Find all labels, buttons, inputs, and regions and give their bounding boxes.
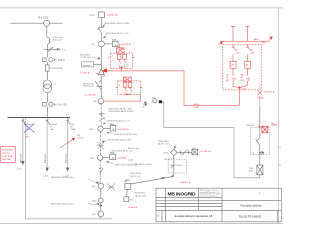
step line to right column <box>162 102 260 178</box>
svg-text:NS16-NS16 4A-2S L-40m: NS16-NS16 4A-2S L-40m <box>114 133 137 136</box>
left end arrow <box>219 41 223 45</box>
svg-text:310-01-TP-2-BS-02: 310-01-TP-2-BS-02 <box>239 215 262 219</box>
junction triangle <box>262 151 265 155</box>
svg-text:IP229A: IP229A <box>175 164 182 167</box>
svg-text:4A-2S L-30: 4A-2S L-30 <box>130 175 141 178</box>
svg-text:RvP-N: RvP-N <box>58 59 65 62</box>
svg-text:P=1500kW: P=1500kW <box>2 149 12 151</box>
svg-text:MB INOGRID: MB INOGRID <box>168 191 197 197</box>
switch on wire <box>181 149 188 155</box>
box N41b <box>124 197 129 202</box>
box2 bottom dot <box>126 94 128 96</box>
wire <box>101 35 103 41</box>
box2 bottom bus <box>125 93 130 96</box>
box NS8a <box>110 126 116 131</box>
box NS2 with X <box>192 149 198 155</box>
red open switch X right <box>258 90 263 95</box>
arrow into junction <box>158 178 164 180</box>
svg-text:naujas: naujas <box>78 137 84 139</box>
wire <box>46 45 48 58</box>
svg-text:L1=420,4 A: L1=420,4 A <box>180 181 191 184</box>
svg-text:L-200: L-200 <box>43 176 49 178</box>
svg-text:(A-2F L-310): (A-2F L-310) <box>158 142 170 145</box>
red leader to branch3 <box>60 138 75 148</box>
svg-text:Z0N-1-2S: Z0N-1-2S <box>53 40 63 42</box>
red branch from N20 <box>104 94 141 101</box>
open switch X <box>97 142 104 149</box>
branch3 wire <box>67 118 69 167</box>
svg-text:www.eso.lt, info@eso.lt: www.eso.lt, info@eso.lt <box>200 194 218 197</box>
disconnector with bar <box>98 114 105 122</box>
svg-text:4A-2S L-100: 4A-2S L-100 <box>83 85 95 88</box>
supply stub bars <box>231 25 250 27</box>
svg-text:NS4T-NS610 2A-2S L-100m: NS4T-NS610 2A-2S L-100m <box>105 22 131 25</box>
svg-text:2x-2S L-40m: 2x-2S L-40m <box>80 57 92 59</box>
branch3 breaker <box>66 120 70 125</box>
delta node N4 <box>98 69 104 75</box>
wire <box>46 71 48 80</box>
frame bottom border <box>0 223 283 225</box>
svg-text:NS2: NS2 <box>192 148 196 150</box>
incoming diagonal wire from NS10 box <box>131 176 174 184</box>
svg-text:L1=706,7 A: L1=706,7 A <box>264 91 275 94</box>
title block outer box <box>156 188 281 222</box>
red cable line KAB <box>223 40 269 42</box>
svg-text:(N): (N) <box>252 153 255 155</box>
company info tiny text <box>200 189 220 197</box>
wire down from busbar <box>46 26 48 37</box>
demolition cross blue <box>24 124 35 133</box>
box2 right rect <box>128 82 132 87</box>
gray arrow to box2 <box>143 103 148 107</box>
wire <box>100 104 102 126</box>
node circle N20 <box>98 99 103 104</box>
svg-text:L1=400 A: L1=400 A <box>128 206 137 209</box>
wire to ring <box>100 217 102 219</box>
svg-text:4A-2S L-40m: 4A-2S L-40m <box>128 147 140 150</box>
svg-text:L1=1008 A: L1=1008 A <box>117 157 128 160</box>
svg-text:NS10: NS10 <box>90 15 96 17</box>
meter box bottom <box>257 165 263 175</box>
red tick right page edge <box>271 124 277 126</box>
svg-text:NS05-NS010 4A-2S L-100m: NS05-NS010 4A-2S L-100m <box>108 110 134 113</box>
svg-text:M-4 2023: M-4 2023 <box>38 17 49 20</box>
svg-text:NS01-NS05 4A-2S L-80m: NS01-NS05 4A-2S L-80m <box>51 176 74 179</box>
fuse PN <box>45 65 49 71</box>
svg-text:L1=108,2 A: L1=108,2 A <box>120 43 131 46</box>
wire <box>100 189 102 198</box>
right branch breaker1 <box>246 44 250 61</box>
node circle N16b <box>98 155 103 160</box>
fuse switch Qv row <box>43 102 57 106</box>
wire down <box>173 156 175 177</box>
join wires <box>233 84 248 88</box>
svg-text:L-6kV: L-6kV <box>194 107 200 109</box>
svg-text:NS16-NS16 4A-2S L-77m: NS16-NS16 4A-2S L-77m <box>107 120 130 123</box>
node circle NS7 <box>99 41 105 47</box>
box N28 <box>112 41 118 47</box>
meter circle Wh <box>153 99 157 103</box>
box1 top stub <box>118 45 120 48</box>
join dot <box>239 87 241 89</box>
node circle N16a <box>98 126 103 131</box>
wire <box>259 147 261 165</box>
left branch breaker1 <box>232 44 236 61</box>
switch inside <box>171 163 174 169</box>
inverter box <box>82 62 94 67</box>
svg-text:L200: L200 <box>235 53 239 55</box>
svg-text:NS5-A05: NS5-A05 <box>246 124 255 127</box>
ring feeder left L <box>25 118 112 219</box>
node circle NS16 <box>171 149 178 156</box>
inverter stub <box>94 63 102 65</box>
junction dot <box>100 205 102 207</box>
box1 side ticks <box>108 56 134 58</box>
right end arrow <box>269 37 272 42</box>
breaker <box>95 80 102 89</box>
svg-text:L200: L200 <box>250 53 254 55</box>
box NS10 <box>125 183 131 189</box>
svg-text:NS05-NS05 4A-2S L-100m: NS05-NS05 4A-2S L-100m <box>108 108 132 111</box>
wire between boxes <box>126 189 129 197</box>
right fuse rect <box>245 61 251 68</box>
svg-text:NS10-NS10: NS10-NS10 <box>135 193 147 195</box>
svg-text:L1=140,2 A: L1=140,2 A <box>200 150 211 153</box>
LV busbar <box>8 117 71 119</box>
svg-text:L1=473 A: L1=473 A <box>80 71 89 74</box>
right breaker2 <box>246 68 250 83</box>
svg-text:C40A: C40A <box>70 128 76 131</box>
box1 switches <box>119 59 126 66</box>
svg-text:50m: 50m <box>262 42 266 44</box>
svg-text:Energijos skirstymo operatoriu: Energijos skirstymo operatorius, AB <box>175 215 213 218</box>
wire <box>100 76 102 98</box>
junction dot <box>172 175 174 177</box>
branch2 arrow <box>46 167 48 171</box>
wire to LV busbar <box>46 107 48 118</box>
wire <box>46 62 48 65</box>
box2 left rect <box>123 82 127 87</box>
svg-text:AXPK 4x50: AXPK 4x50 <box>44 153 47 163</box>
stub to box NS8b <box>103 156 110 158</box>
node circle N40 <box>98 183 103 188</box>
svg-text:NS16-NS16 4A-2S L-80m: NS16-NS16 4A-2S L-80m <box>109 138 132 141</box>
box2 top meter rect <box>123 77 131 82</box>
svg-text:S=40,3kVA: S=40,3kVA <box>2 155 13 158</box>
branch2 breaker <box>46 120 50 125</box>
fuse switch RvP row <box>43 58 57 62</box>
drop wires <box>233 26 248 41</box>
svg-text:Invertor.: Invertor. <box>83 64 91 67</box>
red param box <box>1 147 16 163</box>
svg-text:L1=1008,8 A: L1=1008,8 A <box>117 128 129 131</box>
wire right <box>177 151 192 153</box>
breaker Q <box>97 27 104 35</box>
transformer T <box>43 80 52 89</box>
wire to bottom <box>259 175 261 178</box>
svg-text:Wh: Wh <box>152 97 155 99</box>
node circle N41 <box>98 198 103 203</box>
red feeder main polyline <box>103 71 240 105</box>
right column wire <box>259 107 261 139</box>
title block verticals <box>165 188 167 222</box>
branch3 arrow <box>66 167 68 171</box>
red wedge arrow on feeder <box>102 69 107 73</box>
svg-text:A-640: A-640 <box>194 103 200 106</box>
box1 bottom bus <box>119 66 124 71</box>
stub to box N28 <box>104 43 112 45</box>
box2 side ticks <box>116 87 143 89</box>
left fuse rect <box>230 61 236 68</box>
wire <box>101 18 103 28</box>
node hex N42 <box>98 211 104 217</box>
red dashed drop right <box>259 85 261 90</box>
box2 switches <box>125 87 132 93</box>
svg-text:NS01-NS05 4A-2S L-80m: NS01-NS05 4A-2S L-80m <box>51 202 74 205</box>
left breaker2 <box>232 68 236 83</box>
wire <box>46 93 48 103</box>
svg-text:PN-N 3Z/NA: PN-N 3Z/NA <box>51 67 63 70</box>
frame top border <box>0 7 283 9</box>
wire <box>99 160 101 183</box>
branch1 breaker <box>22 120 26 125</box>
box1 bottom dot <box>121 66 123 68</box>
svg-text:SB-1-1: SB-1-1 <box>164 159 171 161</box>
wire <box>99 132 101 156</box>
top terminal box NS10 <box>99 12 105 18</box>
meter leader arrow <box>143 102 147 105</box>
wire <box>100 203 102 211</box>
meter terminal square <box>159 100 162 103</box>
branch1 wire <box>22 118 24 161</box>
svg-text:NS16: NS16 <box>164 152 170 154</box>
box1 left rect <box>117 54 121 59</box>
svg-text:Q=0,25: Q=0,25 <box>2 153 10 155</box>
node circle on busbar <box>44 20 50 26</box>
svg-text:NS16-NS16 4A-2S L-40: NS16-NS16 4A-2S L-40 <box>112 149 134 152</box>
svg-text:NS10: NS10 <box>125 180 131 182</box>
busbar M-4 top <box>10 22 62 24</box>
red dashed enclosure <box>223 44 262 90</box>
box1 top meter rect <box>116 48 124 53</box>
title block bottom row line <box>156 209 281 211</box>
svg-text:AXPK 4x50: AXPK 4x50 <box>20 153 23 163</box>
TITLEBLOCK <box>156 188 281 222</box>
box1 right rect <box>123 54 127 59</box>
svg-text:L1=1365,6 A: L1=1365,6 A <box>84 93 96 96</box>
branch1 arrow <box>22 161 24 165</box>
wire <box>100 47 102 69</box>
breaker <box>99 168 103 175</box>
box nub <box>124 181 127 182</box>
svg-text:NS786: NS786 <box>257 97 264 99</box>
svg-text:NS4T-NS08 2A-2S L-10m: NS4T-NS08 2A-2S L-10m <box>106 32 129 35</box>
svg-text:Qv 0,5N: Qv 0,5N <box>58 104 67 107</box>
frame right border <box>277 8 279 224</box>
gray dashed enclosure <box>250 127 269 154</box>
svg-text:I=97,05A: I=97,05A <box>2 158 11 161</box>
open switch X right of N40 <box>107 183 115 190</box>
stub to box NS8a <box>103 127 110 129</box>
breaker blade <box>256 139 260 147</box>
load break switch QS1 <box>47 37 50 45</box>
top nub <box>174 144 176 149</box>
svg-text:L1=A: L1=A <box>128 158 134 161</box>
red meter box on column <box>258 126 268 133</box>
title block right cell split <box>222 199 281 201</box>
svg-text:L-100: L-100 <box>17 169 23 171</box>
svg-text:NS10 4A-2S L-300m: NS10 4A-2S L-300m <box>134 163 153 166</box>
red dashed box 1 <box>110 53 132 68</box>
svg-text:L1=108,3 A: L1=108,3 A <box>107 13 118 16</box>
junction dot <box>259 152 261 154</box>
box NS8b <box>110 154 116 160</box>
dashed box IP <box>168 160 186 173</box>
svg-text:AXPK 4x16: AXPK 4x16 <box>64 153 67 163</box>
svg-text:KAB 2: KAB 2 <box>254 38 261 41</box>
red dashes to black column <box>259 96 261 107</box>
title block left column lines <box>156 200 222 202</box>
branch2 wire <box>46 118 48 167</box>
red dashed box 2 <box>118 81 141 95</box>
svg-text:Principine schema: Principine schema <box>240 204 262 208</box>
svg-text:4A-2S L-400: 4A-2S L-400 <box>135 194 147 197</box>
branch arrow to T-1 <box>44 47 60 52</box>
